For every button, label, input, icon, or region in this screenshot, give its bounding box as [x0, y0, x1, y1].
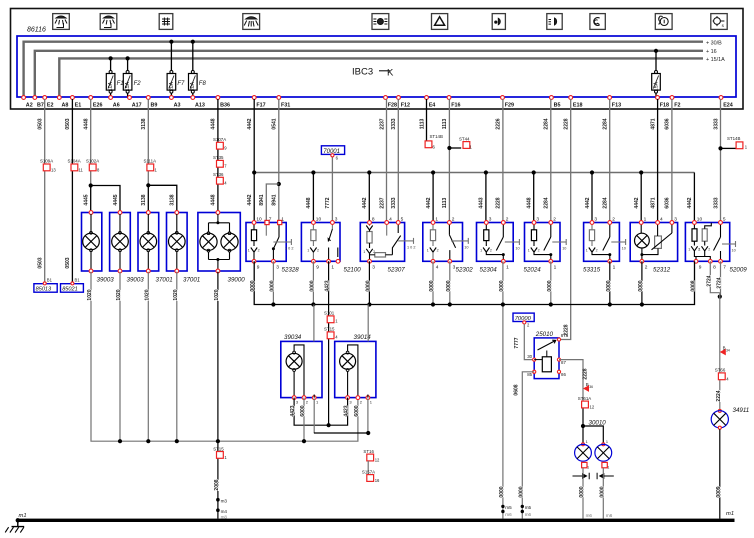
switch 52302 lamp	[430, 248, 436, 253]
svg-text:1: 1	[699, 248, 701, 252]
svg-text:2: 2	[452, 216, 455, 222]
svg-text:1: 1	[248, 249, 250, 253]
wire ST16 to S157A	[367, 461, 369, 475]
drop to 53315 pin 3	[590, 170, 594, 174]
svg-text:+ 16: + 16	[706, 49, 717, 55]
IBC3 pin F12	[397, 96, 401, 100]
dimmer module 70001	[321, 146, 344, 155]
IBC3 pin E4	[425, 96, 429, 100]
IBC3 pin A17	[128, 96, 132, 100]
switch 52312 box	[630, 223, 677, 262]
svg-text:F2: F2	[674, 103, 680, 109]
lamp 39034 feed elbow	[294, 345, 304, 398]
earth symbol	[12, 522, 25, 527]
svg-text:2228: 2228	[564, 118, 570, 129]
headlamp 39000 bulb left	[207, 232, 210, 235]
svg-text:2237: 2237	[379, 118, 385, 129]
fuse F7	[169, 40, 173, 44]
wire F17 down to switch 52328 pin 10	[253, 99, 255, 223]
headlamp 37001 bottom pin	[175, 269, 179, 273]
svg-text:2228: 2228	[583, 368, 589, 379]
side lamp 85013 pin B1	[43, 282, 46, 285]
drop to 52100 pin 10	[311, 170, 315, 174]
branch wire to ST44	[449, 147, 461, 149]
junction of pins 8/7	[718, 295, 722, 299]
svg-text:2226: 2226	[496, 118, 502, 129]
wire 52304 pin1 to ground m5	[502, 261, 504, 518]
svg-text:4442: 4442	[687, 197, 693, 208]
corner drop to 52009 pin 10	[693, 173, 695, 223]
svg-text:E2: E2	[47, 103, 54, 109]
svg-text:2: 2	[317, 249, 319, 253]
svg-text:ST35: ST35	[213, 155, 224, 160]
junction to ST44	[447, 146, 451, 150]
connector S109A pin 13	[43, 164, 50, 171]
svg-text:4442: 4442	[426, 197, 432, 208]
connector S111A pin 1	[147, 164, 154, 171]
IBC3 pin E2	[43, 96, 47, 100]
svg-text:52304: 52304	[480, 267, 498, 274]
wire 52009 pin 7 down	[720, 261, 722, 296]
lamp return wire at x=120.0	[119, 272, 121, 441]
distribution wire from F17	[254, 172, 694, 174]
IBC3 pin F31	[277, 96, 281, 100]
svg-text:A17: A17	[132, 103, 142, 109]
wire E2 to 85013	[44, 99, 46, 283]
wire E18 to relay 25010 pin 87a	[559, 99, 571, 340]
fog lamp 30010 bulb at x=603.3	[602, 443, 605, 446]
switch 52024 box	[525, 223, 561, 262]
svg-text:6000: 6000	[300, 405, 306, 416]
wire 70001 to 52100 pin 3	[331, 156, 333, 223]
svg-text:3138: 3138	[141, 118, 147, 129]
svg-text:1 0 2: 1 0 2	[285, 247, 293, 251]
wire to collector at x=550.8	[550, 261, 552, 304]
reading lamp icon	[100, 14, 117, 30]
svg-text:4871: 4871	[650, 197, 656, 208]
switch 52328 pin 1	[278, 220, 282, 224]
switch 52304 lamp link	[486, 252, 503, 254]
svg-text:3138: 3138	[170, 194, 176, 205]
headlamp 39000 bottom pin	[216, 269, 220, 273]
svg-text:2: 2	[538, 249, 540, 253]
switch 52024 contact	[550, 223, 552, 238]
svg-text:S109A: S109A	[40, 159, 53, 164]
ground bus m1	[17, 519, 735, 522]
fog lamp right ground wire	[602, 468, 604, 519]
svg-text:85021: 85021	[62, 287, 78, 293]
svg-text:2: 2	[490, 249, 492, 253]
switch 52312 bottom link	[640, 253, 643, 256]
switch 52307 pin 4	[385, 221, 389, 225]
switch 52328 pin 7	[265, 220, 269, 224]
switch 52304 contact	[502, 223, 504, 238]
fuse F18 feed	[654, 49, 658, 53]
switch 52024 lamp link	[534, 252, 551, 254]
lamp 39034 bulb	[293, 351, 296, 354]
svg-text:3138: 3138	[141, 194, 147, 205]
svg-text:1020: 1020	[116, 289, 122, 300]
connector S104A pin 11	[71, 164, 78, 171]
switch 52302 pin 2	[448, 221, 452, 225]
switch 52024 pin 3	[532, 221, 536, 225]
wire to collector at x=609.8	[609, 261, 611, 304]
side lamp 85013 box	[34, 284, 57, 293]
svg-text:A3: A3	[174, 103, 181, 109]
switch 52307 lamp lower	[366, 249, 372, 254]
wire to lamp 34911	[719, 297, 721, 411]
lamp 39034 pin 3	[292, 396, 296, 400]
wire E1 to 85021	[71, 99, 73, 283]
wire to 39014 pin1 from collector	[367, 305, 369, 342]
svg-text:8941: 8941	[272, 194, 278, 205]
branch to 52328 pin 7	[266, 184, 279, 223]
svg-text:2: 2	[612, 216, 615, 222]
svg-text:2724: 2724	[717, 277, 723, 288]
wire 52100/S101 chain down to junction	[328, 424, 330, 426]
svg-text:1 0 2: 1 0 2	[407, 245, 415, 249]
svg-text:39000: 39000	[228, 277, 246, 284]
svg-text:1: 1	[607, 466, 609, 470]
switch 52312 pin 2	[640, 259, 644, 263]
IBC3 pin F28	[384, 96, 388, 100]
svg-text:1: 1	[435, 216, 438, 222]
svg-text:12: 12	[590, 405, 595, 410]
switch 52307 heater resistor	[375, 253, 386, 257]
svg-text:1: 1	[307, 249, 309, 253]
switch 52302 box	[423, 223, 463, 262]
svg-text:6036: 6036	[665, 197, 671, 208]
svg-text:8: 8	[713, 264, 716, 270]
svg-text:m1: m1	[19, 513, 27, 519]
trailer socket icon	[711, 14, 727, 30]
wire F28 to 52307 pin 4	[386, 99, 388, 223]
svg-text:52328: 52328	[282, 267, 300, 274]
wire B9 to lamp 37001 left	[147, 99, 149, 185]
connector ST15 pin 4	[327, 332, 334, 339]
courtesy lamp icon	[243, 14, 260, 30]
relay 25010 contact	[538, 340, 556, 350]
switch 52328 contact	[278, 223, 280, 238]
svg-text:1: 1	[613, 264, 616, 270]
svg-text:7772: 7772	[325, 197, 331, 208]
control unit IBC3 blue box	[17, 36, 736, 97]
lamp 39014 pin 3	[346, 396, 350, 400]
svg-text:0503: 0503	[65, 118, 71, 129]
switch illumination icon	[159, 14, 173, 30]
svg-text:52312: 52312	[653, 267, 671, 274]
svg-text:52009: 52009	[730, 267, 748, 274]
svg-text:4: 4	[436, 264, 439, 270]
fog lamp pin square at x=583.0	[582, 462, 587, 467]
svg-text:4448: 4448	[211, 118, 217, 129]
svg-text:86116: 86116	[27, 27, 46, 34]
switch 52328 box	[246, 223, 286, 262]
switch 52302 pin 3	[448, 259, 452, 263]
svg-text:37001: 37001	[183, 277, 200, 284]
IBC3 pin A8	[57, 96, 61, 100]
svg-text:B36: B36	[220, 103, 230, 109]
fog lamp left ground wire	[582, 468, 584, 519]
wire F31 to 52328 pin 1	[278, 99, 280, 223]
lamp 39014 return	[347, 371, 349, 397]
switch 52328 pin7 stub	[265, 223, 267, 236]
junction m6 on wire	[501, 510, 504, 513]
IBC3 pin E24	[719, 96, 723, 100]
switch 52328 pin 9	[252, 259, 256, 263]
switch 53315 pin 1	[608, 259, 612, 263]
interior lamp icon	[53, 14, 70, 30]
wire F29 to 52304 pin 2	[502, 99, 504, 223]
lamp return collector wire	[91, 272, 358, 441]
switch 52304 resistor	[484, 230, 489, 241]
svg-text:1: 1	[554, 264, 557, 270]
switch 52024 lamp	[531, 248, 537, 253]
fuse F8	[191, 40, 195, 44]
svg-text:0000: 0000	[638, 280, 644, 291]
module 70000 pin 2	[523, 321, 526, 324]
svg-text:1020: 1020	[144, 289, 150, 300]
svg-text:2284: 2284	[603, 118, 609, 129]
svg-text:52100: 52100	[344, 267, 362, 274]
svg-text:39034: 39034	[284, 334, 302, 341]
svg-text:0009: 0009	[716, 486, 722, 497]
relay 25010 pin 87a	[557, 338, 560, 341]
switch 52307 pin 8	[368, 221, 372, 225]
wire F12 to 52307 pin 5	[397, 99, 399, 223]
svg-text:12: 12	[375, 458, 380, 463]
headlamp 37001 top pin	[146, 211, 150, 215]
junction of license lamp feeds	[294, 398, 348, 426]
switch 52100 pin 1	[327, 259, 331, 263]
svg-text:7: 7	[723, 264, 726, 270]
svg-text:0000: 0000	[579, 486, 585, 497]
svg-text:0000: 0000	[606, 280, 612, 291]
svg-text:2008: 2008	[214, 479, 220, 490]
svg-text:0000: 0000	[518, 486, 524, 497]
svg-text:ST61A: ST61A	[578, 396, 591, 401]
fog lamp pin square at x=603.3	[602, 462, 607, 467]
connector ST61A pin 12	[582, 401, 589, 408]
svg-text:S157A: S157A	[362, 469, 375, 474]
lamp 39000 return wire to ground	[217, 272, 219, 519]
tail lamp 34911	[718, 409, 721, 412]
svg-text:3: 3	[335, 216, 338, 222]
svg-text:2284: 2284	[544, 118, 550, 129]
wire 52100 pin1 to connector S101	[328, 261, 330, 425]
svg-text:0000: 0000	[499, 486, 505, 497]
svg-text:1113: 1113	[442, 118, 448, 129]
svg-text:36: 36	[589, 385, 593, 389]
svg-text:86: 86	[561, 372, 566, 377]
svg-text:ST16: ST16	[363, 449, 374, 454]
headlamp unit 39003 box	[82, 213, 102, 272]
svg-text:B9: B9	[151, 103, 158, 109]
switch 52328 resistor	[251, 230, 256, 241]
svg-text:4445: 4445	[113, 194, 119, 205]
svg-text:4442: 4442	[247, 194, 253, 205]
lamp return wire at x=148.3	[147, 272, 149, 441]
switch 52302 resistor	[430, 230, 435, 241]
svg-text:A6: A6	[113, 103, 120, 109]
svg-text:4448: 4448	[306, 197, 312, 208]
svg-text:2: 2	[596, 249, 598, 253]
svg-text:F29: F29	[505, 103, 514, 109]
side light icon	[547, 14, 562, 30]
svg-text:2224: 2224	[716, 390, 722, 401]
switch 53315 lamp link	[592, 252, 610, 254]
wire F18 to 52312 pin 4	[657, 99, 659, 223]
svg-text:4: 4	[660, 216, 663, 222]
svg-text:87a: 87a	[561, 333, 569, 338]
svg-text:1: 1	[528, 249, 530, 253]
switch 53315 lamp	[589, 248, 595, 253]
svg-text:10: 10	[515, 247, 519, 251]
svg-text:1020: 1020	[214, 289, 220, 300]
drop to 52302 pin 1	[431, 170, 435, 174]
svg-text:0000: 0000	[429, 280, 435, 291]
side lamp 85021 box	[61, 284, 84, 293]
relay internal links	[534, 359, 542, 361]
switch 52009 lamp 2	[702, 246, 708, 251]
svg-text:m6: m6	[586, 513, 593, 518]
svg-text:13: 13	[51, 168, 56, 173]
wire F16 to 52302 pin 2	[448, 99, 450, 223]
headlamp 37001 bottom pin	[146, 269, 150, 273]
svg-text:3: 3	[674, 216, 677, 222]
svg-text:7777: 7777	[514, 337, 520, 348]
wire F13 to 53315 pin 2	[609, 99, 611, 223]
fog lamp 30010 right feed	[583, 426, 603, 444]
relay 25010 pin 87	[557, 358, 560, 361]
svg-text:2284: 2284	[544, 197, 550, 208]
switch 52009 pin 5	[719, 221, 723, 225]
svg-text:F17: F17	[256, 103, 265, 109]
switch 52100 spare pin	[336, 259, 340, 263]
svg-text:ST14B: ST14B	[430, 134, 443, 139]
daytime running light icon	[590, 14, 605, 30]
switch 52328 pin 3	[272, 259, 276, 263]
headlamp 39003 bottom pin	[89, 269, 93, 273]
svg-text:10: 10	[732, 249, 736, 253]
headlamp 39000 bulb right	[228, 232, 231, 235]
svg-text:0503: 0503	[65, 257, 71, 268]
svg-text:6000: 6000	[354, 405, 360, 416]
svg-text:3: 3	[372, 264, 375, 270]
switch 52100 resistor	[311, 230, 316, 241]
svg-text:0000: 0000	[547, 280, 553, 291]
lamp 39014 feed elbow	[348, 345, 358, 398]
svg-text:2: 2	[553, 216, 556, 222]
svg-text:10: 10	[562, 247, 566, 251]
headlamp unit 37001 box	[138, 213, 159, 272]
junction m5 on relay ground wire	[521, 505, 524, 508]
bus wire +16	[35, 51, 703, 97]
relay 25010 box	[534, 338, 559, 379]
switch 52307 box	[360, 223, 404, 262]
svg-text:F12: F12	[401, 103, 410, 109]
svg-text:m5: m5	[525, 505, 532, 510]
switch 52328 lamp	[251, 248, 257, 253]
svg-text:30: 30	[527, 354, 532, 359]
svg-text:F16: F16	[451, 103, 460, 109]
svg-text:ST14B: ST14B	[727, 136, 740, 141]
drop to 52024 pin 3	[532, 170, 536, 174]
switch 52024 resistor	[531, 230, 536, 241]
svg-text:F28: F28	[388, 103, 397, 109]
switch 52304 pin 1	[501, 259, 505, 263]
svg-text:34: 34	[726, 348, 730, 352]
svg-text:S111A: S111A	[144, 159, 157, 164]
svg-text:0503: 0503	[38, 257, 44, 268]
connector ST66 pin 4	[718, 373, 725, 380]
relay 25010 coil	[542, 357, 551, 372]
svg-text:+ 15/1A: + 15/1A	[706, 57, 725, 63]
connector B34 marker	[720, 349, 726, 356]
svg-text:F8: F8	[199, 81, 207, 87]
svg-text:7: 7	[269, 216, 272, 222]
svg-text:+ 30/B: + 30/B	[706, 40, 722, 46]
relay 25010 pin 86	[557, 370, 560, 373]
wire relay pin 87 to fog lamps 30010	[559, 360, 583, 402]
IBC3 pin E26	[89, 96, 93, 100]
svg-text:52307: 52307	[388, 267, 406, 274]
svg-text:0000: 0000	[599, 486, 605, 497]
svg-text:1: 1	[331, 264, 334, 270]
svg-text:10: 10	[256, 216, 262, 222]
IBC3 pin B36	[216, 96, 220, 100]
IBC3 pin F18	[656, 96, 660, 100]
svg-text:F18: F18	[660, 103, 669, 109]
connector ST44 pin 1	[463, 142, 470, 149]
svg-text:E24: E24	[723, 103, 733, 109]
svg-text:10: 10	[697, 216, 703, 222]
svg-text:3333: 3333	[391, 197, 397, 208]
svg-text:1020: 1020	[173, 289, 179, 300]
wire relay pin 85 to ground m5	[522, 372, 534, 519]
IBC3 pin B9	[146, 96, 150, 100]
switch 52304 pin 3	[484, 221, 488, 225]
switch 52312 rheostat	[655, 236, 662, 248]
svg-text:10: 10	[464, 245, 468, 249]
switch 52307 pin 5	[396, 221, 400, 225]
connector ST15 pin 1 on ground wire	[217, 452, 224, 459]
svg-text:F7: F7	[177, 81, 185, 87]
IBC3 pin A2	[22, 96, 26, 100]
svg-text:1: 1	[480, 249, 482, 253]
switch 52304 lamp	[483, 248, 489, 253]
switch 52100 pin 10	[312, 221, 316, 225]
switch 52009 pin 8	[708, 259, 712, 263]
svg-text:0000: 0000	[250, 280, 256, 291]
dashed boundary of fuse/relay compartment	[11, 9, 744, 110]
svg-text:4442: 4442	[362, 197, 368, 208]
fuse F2	[126, 56, 130, 60]
svg-text:B7: B7	[37, 103, 44, 109]
svg-text:S107A: S107A	[213, 137, 226, 142]
switch 53315 contact	[609, 223, 611, 238]
svg-text:3333: 3333	[391, 118, 397, 129]
headlamp 37001 bulb	[147, 214, 149, 233]
svg-text:IBC3: IBC3	[352, 67, 373, 78]
switch 52009 lamp 1	[691, 246, 697, 251]
switch 52328 pin 10	[252, 221, 256, 225]
connector S102A pin 8	[89, 164, 96, 171]
svg-text:F2: F2	[134, 81, 142, 87]
switch 52009 pin 9	[694, 259, 698, 263]
parking lamp icon	[372, 14, 389, 30]
IBC3 pin A6	[109, 96, 113, 100]
